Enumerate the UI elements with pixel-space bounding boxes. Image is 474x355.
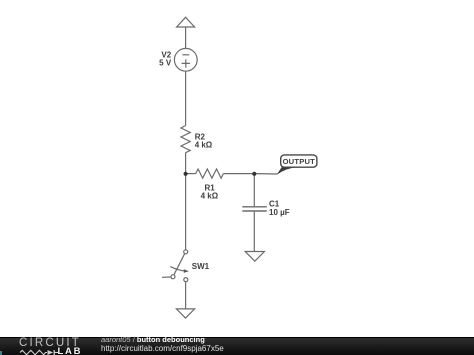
CircuitLab wordmark CIRCUIT — [19, 338, 81, 349]
capacitor C1 bottom plate — [242, 210, 266, 212]
CircuitLab logo resistor+diode glyph — [14, 349, 60, 355]
ground symbol left — [176, 309, 194, 318]
wire SW1 bottom to ground — [185, 282, 187, 309]
svg-text:SW1: SW1 — [192, 262, 210, 271]
OUTPUT flag box — [281, 155, 317, 167]
wire node A down to SW1 top — [185, 174, 187, 250]
bottom-left teal fragment — [0, 351, 2, 355]
footer credit line — [101, 335, 205, 344]
CircuitLab wordmark LAB — [58, 348, 83, 355]
resistor R2 zigzag — [181, 126, 190, 153]
wire node B to OUTPUT flag — [254, 173, 277, 175]
junction node A dot — [184, 172, 188, 176]
svg-text:4 kΩ: 4 kΩ — [195, 141, 213, 150]
junction node B dot — [252, 172, 256, 176]
svg-text:10 µF: 10 µF — [269, 208, 290, 217]
wire C1 bottom plate to ground — [253, 211, 255, 252]
footer url line — [101, 344, 224, 353]
wire R1 right to node B — [223, 173, 254, 175]
svg-text:4 kΩ: 4 kΩ — [201, 191, 219, 200]
resistor R1 zigzag — [196, 169, 224, 178]
switch SW1 left stub wire — [162, 276, 171, 278]
wire VCC arrow to V2 top — [185, 27, 187, 48]
power flag VCC arrow — [177, 17, 195, 27]
capacitor C1 top plate — [242, 206, 266, 208]
svg-text:OUTPUT: OUTPUT — [283, 157, 316, 166]
ground symbol right — [245, 252, 264, 262]
switch SW1 blade — [172, 254, 185, 280]
wire R2 bottom to node A — [185, 153, 187, 174]
voltage source V2 circle — [174, 48, 197, 71]
switch SW1 actuator arrow — [170, 267, 184, 271]
switch SW1 bottom terminal circle — [184, 278, 188, 282]
svg-text:C1: C1 — [269, 200, 280, 209]
wire node B down to C1 top plate — [253, 174, 255, 207]
switch SW1 top terminal circle — [184, 250, 188, 254]
V2 minus sign — [182, 54, 189, 56]
switch SW1 left throw terminal circle — [171, 275, 175, 279]
OUTPUT flag pointer — [277, 167, 298, 175]
svg-text:5 V: 5 V — [159, 59, 172, 68]
wire V2 bottom to R2 top — [185, 71, 187, 125]
footer bar — [0, 337, 474, 355]
wire node A to R1 left — [186, 173, 196, 175]
V2 plus sign — [182, 59, 190, 67]
